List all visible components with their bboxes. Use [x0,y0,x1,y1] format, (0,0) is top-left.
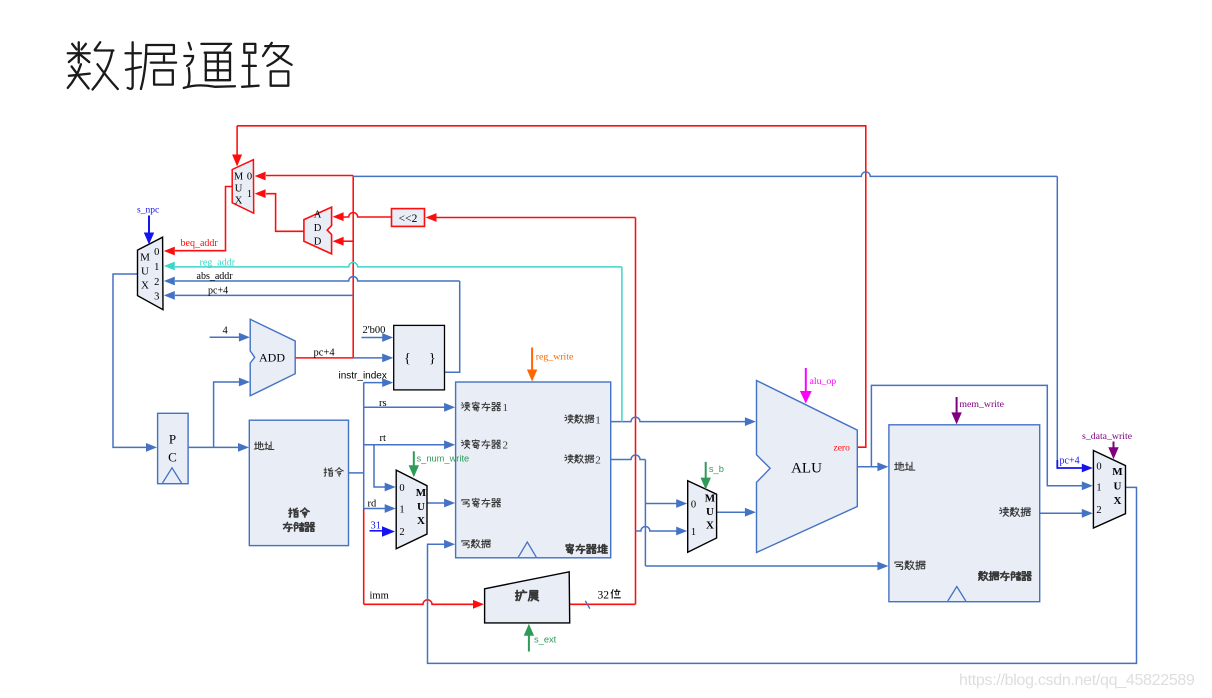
wire ALU result to data memory address [857,462,888,471]
svg-text:M: M [234,172,244,183]
extender 扩展 [485,572,570,623]
svg-text:alu_op: alu_op [810,376,837,387]
svg-text:4: 4 [223,326,229,337]
wire reg_addr : read data 1 up to npc mux input 1 (cyan) [164,262,622,422]
write-number mux (MUX 0/1/2) [396,470,427,549]
svg-text:0: 0 [154,247,159,258]
wire long pc+4 line to write-data mux input 0 [353,172,1093,473]
svg-text:pc+4: pc+4 [1060,456,1080,467]
signal reg_write [527,348,574,382]
branch adder ADD (red) [304,207,332,254]
wire sign-extended imm to shifter input [426,213,636,604]
svg-text:D: D [314,237,322,248]
wire write-back : write-data mux output to register file write data [428,487,1137,663]
wire npc mux output to PC input [113,274,157,452]
ALU [757,381,858,553]
label instr_index [339,370,387,381]
svg-text:s_npc: s_npc [137,206,159,216]
wire PC output branch up to ADD input 2 [214,378,250,448]
wire write-number mux output to write register port [427,499,455,508]
signal s_npc [137,206,159,245]
svg-text:C: C [168,450,177,465]
wire memory read data to write-data mux input 2 [1040,509,1093,518]
svg-text:U: U [1114,481,1122,493]
signal s_num_write [409,451,470,477]
wire rt field to read register 2 [364,440,455,449]
label pc+4 (npc mux input 3) [208,285,228,296]
svg-text:U: U [417,501,425,513]
wire extended imm to alusrc mux input 1 [636,527,688,536]
svg-text:2: 2 [595,454,601,466]
signal mem_write [951,397,1004,424]
register file 寄存器堆 [456,382,611,558]
svg-text:32: 32 [598,590,610,602]
svg-text:2'b00: 2'b00 [363,325,386,336]
signal s_data_write [1082,431,1133,459]
svg-text:1: 1 [691,527,696,538]
label pc+4 (adder output) [314,347,336,358]
svg-text:3: 3 [154,292,159,303]
svg-text:U: U [141,266,149,278]
svg-text:2: 2 [154,277,159,288]
label reg_addr [200,257,236,268]
svg-text:zero: zero [834,443,851,453]
svg-text:31: 31 [371,521,382,532]
svg-text:instr_index: instr_index [339,370,387,381]
wire pc+4 tap into branch adder input 2 [333,237,354,246]
PC register [158,413,189,483]
wire 32-bit extended imm output [570,603,636,605]
svg-text:s_data_write: s_data_write [1082,431,1133,442]
svg-text:reg_write: reg_write [536,351,574,362]
svg-text:U: U [235,184,243,195]
wire rt branch down to write-number mux input 0 [374,445,396,492]
label pc+4 (write-data mux input 0) [1060,456,1080,467]
wire zero-to-branch-mux select net (top red) [232,126,866,447]
wire constant 2b00 into concat unit [362,333,394,342]
svg-text:pc+4: pc+4 [208,285,228,296]
svg-text:{: { [404,352,411,367]
svg-text:imm: imm [370,591,389,602]
wire rd field to write-number mux input 1 [364,504,396,513]
svg-text:s_ext: s_ext [534,634,557,644]
svg-text:M: M [416,487,427,499]
svg-text:}: } [429,352,436,367]
svg-text:mem_write: mem_write [959,399,1004,410]
label abs_addr [197,271,234,282]
svg-text:abs_addr: abs_addr [197,271,234,282]
wire abs_addr : concat output up to npc mux input 2 [164,277,460,373]
svg-text:M: M [1112,466,1123,478]
label 4 [223,326,229,337]
svg-text:1: 1 [595,415,601,427]
wire imm : instruction field to extender [364,509,484,609]
svg-text:X: X [417,515,425,527]
wire rs field to read register 1 [364,403,455,412]
label 32位 [598,589,621,601]
svg-text:D: D [314,223,322,234]
svg-text:rt: rt [380,433,386,444]
svg-text:ADD: ADD [259,351,285,365]
label beq_addr [181,238,219,249]
svg-text:U: U [706,506,714,518]
bus width tick on 32-bit line [585,601,590,609]
alusrc mux (MUX 0/1) [688,481,717,553]
wire pc+4 into concat unit [353,354,393,363]
svg-text:A: A [314,210,322,221]
wire instruction output bus [349,383,364,509]
svg-text:X: X [235,196,243,207]
svg-text:P: P [169,432,176,447]
wire read data 2 to data memory write data [645,562,888,571]
wire pc+4 to npc mux input 3 [164,291,353,300]
svg-text:0: 0 [399,483,404,494]
branch mux (red MUX 0/1) [232,160,254,214]
wire read data 2 to alusrc mux input 0 [645,499,687,508]
wire alusrc mux output to ALU input B [717,508,756,517]
wire constant 31 into write-number mux input 2 [370,526,396,536]
label zero [834,443,851,453]
svg-text:X: X [706,520,714,532]
wire imm<<2 : shifter output to branch adder input 1 [333,212,392,221]
write-data mux (MUX 0/1/2) [1093,451,1125,529]
signal alu_op [800,368,836,404]
svg-text:reg_addr: reg_addr [200,257,236,268]
svg-text:ALU: ALU [791,461,822,477]
svg-text:s_b: s_b [709,464,724,474]
wire pc+4 net red vertical + branch mux input 0 [255,172,354,358]
svg-text:rs: rs [379,398,387,409]
svg-text:beq_addr: beq_addr [181,238,219,249]
svg-text:M: M [705,493,716,505]
svg-text:2: 2 [503,440,509,452]
svg-text:0: 0 [247,172,252,183]
svg-text:s_num_write: s_num_write [417,453,470,463]
svg-text:0: 0 [1096,462,1101,473]
svg-text:rd: rd [368,498,377,509]
svg-text:1: 1 [247,189,252,200]
npc mux (MUX 0/1/2/3) [138,237,164,310]
wire read data 2 bus down [611,455,646,566]
svg-text:https://blog.csdn.net/qq_45822: https://blog.csdn.net/qq_45822589 [959,672,1195,689]
wire constant 4 into ADD input 1 [210,333,250,342]
signal s_b [701,462,724,490]
svg-text:X: X [141,280,149,292]
concat unit { } [394,325,445,390]
wire ALU result bypass to write-data mux input 1 [871,385,1092,490]
title 数据通路 [68,42,292,89]
label rt [380,433,386,444]
instruction memory 指令存储器 [249,420,348,545]
svg-text:X: X [1114,495,1122,507]
svg-text:1: 1 [154,262,159,273]
wire pc+4 red segment from ADD output [295,357,353,359]
svg-text:0: 0 [691,500,696,511]
wire PC output to instruction memory address [188,443,249,452]
wire read data 1 to ALU input A [611,417,756,426]
wire instr_index field into concat unit [364,378,394,387]
signal s_ext [524,624,557,652]
svg-text:pc+4: pc+4 [314,347,336,358]
shift left 2 box <<2 [392,209,425,227]
label rs [379,398,387,409]
label 31 [371,521,382,532]
svg-text:2: 2 [399,527,404,538]
svg-text:<<2: <<2 [399,213,418,225]
wire branch adder output to branch mux input 1 [255,189,304,231]
label rd [368,498,377,509]
svg-text:2: 2 [1096,505,1101,516]
svg-text:1: 1 [1096,483,1101,494]
data memory 数据存储器 [889,425,1040,602]
svg-text:1: 1 [503,402,509,414]
wire beq_addr : branch mux output to npc mux input 0 [164,187,232,256]
svg-text:1: 1 [399,505,404,516]
ADD (pc+4 adder) [250,319,295,396]
watermark [959,672,1195,689]
label 2'b00 [363,325,386,336]
label imm [370,591,389,602]
svg-text:M: M [140,252,150,264]
